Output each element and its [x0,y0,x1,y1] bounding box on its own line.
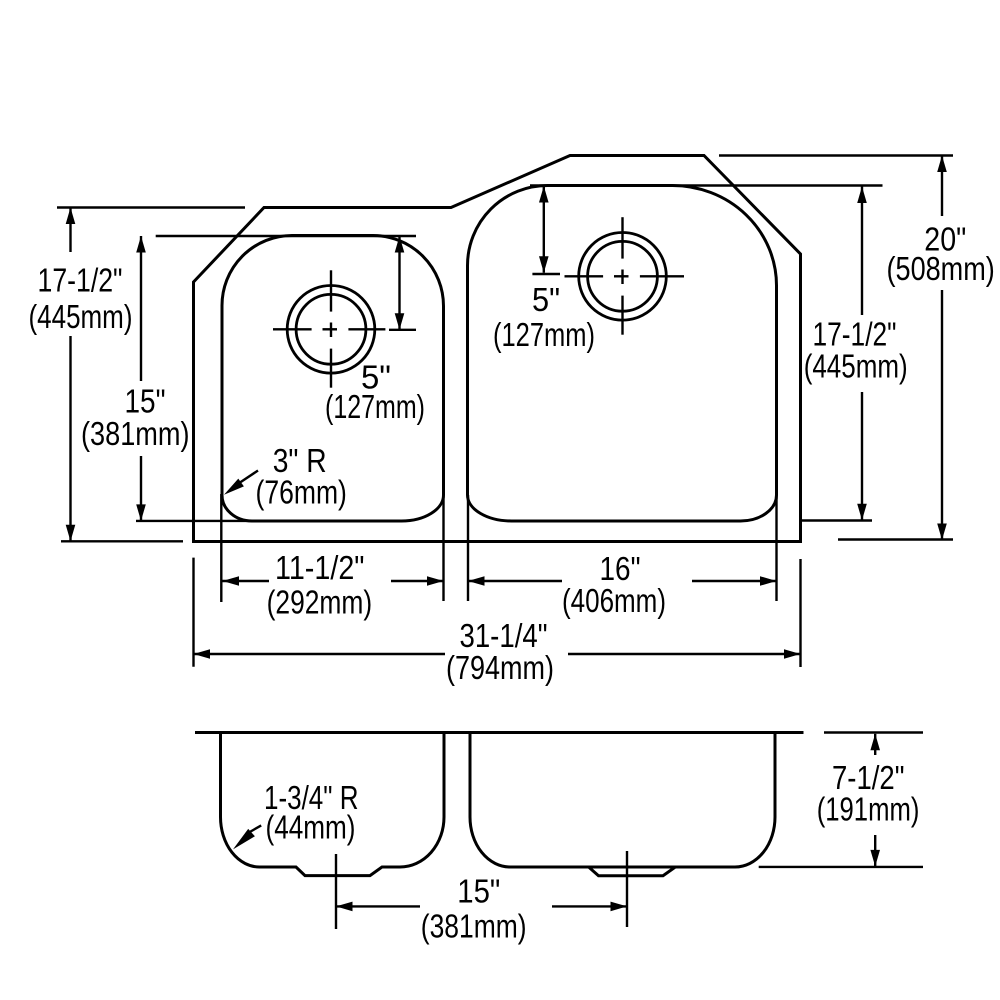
svg-text:(445mm): (445mm) [804,348,908,385]
svg-text:(127mm): (127mm) [493,316,595,353]
svg-text:(381mm): (381mm) [421,908,527,945]
svg-text:(76mm): (76mm) [256,474,347,511]
svg-text:15": 15" [125,383,166,420]
svg-text:(44mm): (44mm) [266,809,356,846]
svg-text:(381mm): (381mm) [81,415,190,452]
svg-text:(292mm): (292mm) [267,584,373,621]
svg-text:(794mm): (794mm) [446,649,554,686]
svg-text:(445mm): (445mm) [29,298,133,335]
svg-text:(127mm): (127mm) [325,388,425,425]
svg-text:(508mm): (508mm) [887,250,995,287]
svg-text:11-1/2": 11-1/2" [275,549,365,586]
svg-text:5": 5" [532,281,560,318]
svg-text:17-1/2": 17-1/2" [38,262,123,299]
svg-text:15": 15" [457,873,500,910]
svg-text:(406mm): (406mm) [562,582,666,619]
svg-text:(191mm): (191mm) [817,791,920,828]
